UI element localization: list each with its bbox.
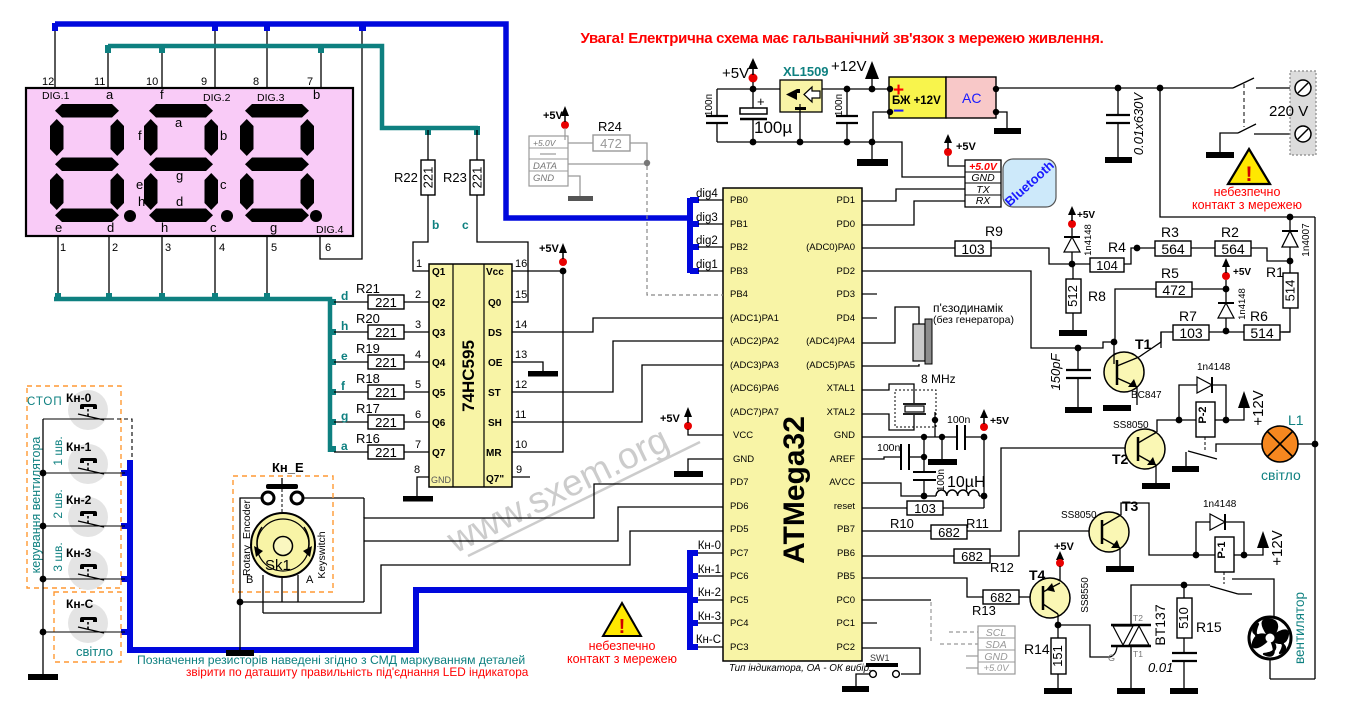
- svg-text:+5V: +5V: [990, 415, 1009, 427]
- svg-text:PB5: PB5: [837, 571, 855, 582]
- svg-text:R15: R15: [1196, 619, 1222, 635]
- svg-text:R22: R22: [394, 170, 418, 185]
- display pin 7 wire: [320, 49, 322, 88]
- svg-text:a: a: [175, 115, 183, 130]
- resistor R16: [334, 431, 429, 460]
- wire PA5 to piezo: [862, 364, 919, 366]
- svg-text:GND: GND: [733, 454, 754, 465]
- ground at U2 pin8: [403, 496, 433, 502]
- resistor R7: [1161, 308, 1226, 348]
- svg-text:100п: 100п: [834, 94, 845, 116]
- teal bus stubs bottom: [55, 293, 336, 452]
- node dig1: [698, 270, 723, 272]
- svg-text:контакт з мережею: контакт з мережею: [567, 652, 677, 666]
- resistor R10: [862, 501, 984, 531]
- svg-text:2: 2: [112, 242, 118, 254]
- svg-text:PB7: PB7: [837, 524, 855, 535]
- svg-text:R17: R17: [356, 401, 380, 416]
- piezo speaker: [913, 301, 1014, 364]
- resistor R9: [862, 223, 1064, 264]
- button Kn-0: [43, 390, 110, 430]
- +5V at Bluetooth: [944, 134, 977, 166]
- svg-text:dig1: dig1: [696, 259, 718, 271]
- svg-text:dig4: dig4: [696, 188, 718, 200]
- svg-text:f: f: [160, 87, 164, 102]
- resistor R12: [862, 531, 1090, 575]
- resistor R6: [1226, 308, 1290, 341]
- svg-text:8 MHz: 8 MHz: [921, 372, 956, 386]
- display pin 6 wire to DIG.4 select: [320, 27, 362, 259]
- warning triangle top: [1192, 149, 1302, 212]
- svg-text:AC: AC: [962, 90, 981, 106]
- svg-text:+12V: +12V: [1269, 530, 1286, 565]
- display bottom pin numbers: [60, 242, 331, 254]
- svg-text:221: 221: [375, 385, 397, 400]
- node R15 top: [1181, 582, 1188, 589]
- blue digit-select bus: [55, 24, 687, 218]
- svg-text:PC4: PC4: [730, 618, 748, 629]
- PSU +12V rail: [822, 88, 889, 90]
- svg-text:10µH: 10µH: [947, 474, 986, 491]
- wire segment b to Q1: [413, 195, 429, 271]
- svg-text:b: b: [313, 87, 320, 102]
- svg-text:514: 514: [1250, 325, 1274, 341]
- svg-text:(ADC3)PA3: (ADC3)PA3: [730, 360, 779, 371]
- encoder key button: [262, 478, 303, 524]
- digit DIG.2 segments: [144, 104, 233, 222]
- svg-text:11: 11: [515, 409, 526, 421]
- svg-text:Кн-3: Кн-3: [698, 611, 721, 623]
- svg-text:Sk1: Sk1: [265, 557, 291, 574]
- node encoder common: [237, 599, 244, 606]
- svg-text:100n: 100n: [947, 414, 971, 426]
- ground at buttons: [28, 674, 58, 680]
- Kn pin labels: [696, 540, 721, 646]
- wire DS14 to PA1: [512, 318, 723, 332]
- svg-text:103: 103: [914, 501, 936, 516]
- resistor R11: [862, 448, 1136, 540]
- svg-text:Кн-0: Кн-0: [698, 540, 721, 552]
- node R7 junction: [1223, 328, 1230, 335]
- svg-text:світло: світло: [76, 644, 113, 659]
- svg-text:БЖ +12V: БЖ +12V: [892, 95, 941, 107]
- diode D1 1n4148: [1064, 206, 1095, 264]
- +5V vertical to coil: [983, 437, 985, 508]
- +5V at MCU rail: [980, 409, 1009, 431]
- svg-text:P-1: P-1: [1216, 541, 1228, 558]
- svg-text:a: a: [106, 87, 114, 102]
- relay P-1: [1193, 537, 1248, 584]
- resistor R8: [1059, 264, 1106, 336]
- svg-text:ST: ST: [488, 388, 501, 399]
- svg-text:682: 682: [961, 549, 983, 564]
- svg-text:221: 221: [375, 325, 397, 340]
- svg-text:R16: R16: [356, 431, 380, 446]
- node R4 junction: [1069, 261, 1076, 268]
- diode D3 1n4148 flyback P-2: [1179, 362, 1231, 420]
- DC-DC converter XL1509: [780, 64, 829, 112]
- svg-text:GND: GND: [971, 172, 995, 184]
- wire ISP DATA row: [568, 163, 647, 165]
- transistor T1 BC847: [1103, 332, 1162, 411]
- svg-text:Q5: Q5: [432, 388, 446, 399]
- svg-text:(ADC0)PA0: (ADC0)PA0: [806, 242, 855, 253]
- svg-text:10: 10: [515, 439, 527, 451]
- svg-text:Кн-2: Кн-2: [698, 587, 721, 599]
- wire BT GND: [872, 142, 965, 177]
- Bluetooth header: [965, 160, 1001, 207]
- svg-text:e: e: [55, 220, 62, 235]
- svg-text:Keyswitch: Keyswitch: [316, 531, 328, 578]
- watermark www.sxem.org: [440, 419, 700, 562]
- capacitor 0.01x630V: [1105, 88, 1146, 163]
- resistor R17: [334, 401, 429, 430]
- svg-text:0.01x630V: 0.01x630V: [1131, 92, 1146, 155]
- svg-text:GND: GND: [431, 475, 452, 485]
- svg-text:7: 7: [307, 76, 313, 88]
- node dots PSU: [750, 86, 876, 146]
- svg-text:SW1: SW1: [870, 653, 890, 663]
- wire XTAL2 to crystal: [862, 414, 914, 430]
- button Kn-1: [43, 436, 125, 484]
- mains switch lower: [1206, 124, 1297, 158]
- capacitor 100n xtal: [947, 414, 984, 450]
- svg-text:небезпечно: небезпечно: [589, 639, 656, 653]
- svg-text:PD1: PD1: [837, 195, 855, 206]
- svg-text:100п: 100п: [704, 94, 715, 116]
- wire encoder left ring to common: [240, 498, 262, 602]
- svg-text:!: !: [619, 616, 626, 638]
- node dig3: [698, 223, 723, 225]
- svg-text:п'єзодинамік: п'єзодинамік: [933, 301, 1004, 315]
- capacitor 100n aref: [862, 437, 927, 472]
- svg-text:SDA: SDA: [985, 639, 1007, 651]
- svg-text:!: !: [1246, 163, 1253, 186]
- svg-text:Rotary_Encoder: Rotary_Encoder: [241, 500, 253, 576]
- wire PD5 staircase from encoder B: [263, 531, 723, 613]
- svg-text:100n: 100n: [936, 469, 947, 491]
- svg-text:Кн-1: Кн-1: [66, 440, 92, 454]
- svg-text:XTAL1: XTAL1: [827, 383, 855, 394]
- ground at AC: [994, 128, 1021, 134]
- svg-text:GND: GND: [984, 651, 1008, 663]
- node T4 collector: [1055, 622, 1062, 629]
- svg-text:7: 7: [415, 439, 421, 451]
- svg-text:(ADC2)PA2: (ADC2)PA2: [730, 336, 779, 347]
- LED display module body: [26, 88, 353, 236]
- svg-text:472: 472: [1162, 282, 1186, 298]
- svg-text:керування вентилятора: керування вентилятора: [29, 437, 43, 574]
- display pin 10 wire: [161, 49, 163, 88]
- power supply BZh +12V: [887, 77, 946, 122]
- svg-text:1n4148: 1n4148: [1237, 288, 1248, 320]
- IC U1 ATMega32: [723, 188, 862, 661]
- node R3 junction: [1134, 245, 1141, 252]
- svg-text:PB3: PB3: [730, 266, 748, 277]
- svg-text:L1: L1: [1288, 412, 1304, 428]
- wire BT TX to PD1: [862, 189, 965, 201]
- svg-text:16: 16: [515, 258, 527, 270]
- svg-text:DIG.3: DIG.3: [257, 92, 285, 104]
- connector 220V: [1269, 71, 1316, 155]
- svg-text:R24: R24: [598, 119, 622, 134]
- svg-text:d: d: [176, 194, 183, 209]
- display pin 1-5 wires: [58, 236, 267, 297]
- svg-text:OE: OE: [488, 358, 503, 369]
- node dig2: [698, 246, 723, 248]
- svg-text:R18: R18: [356, 371, 380, 386]
- svg-text:R11: R11: [966, 516, 989, 531]
- svg-text:(ADC6)PA6: (ADC6)PA6: [730, 383, 779, 394]
- svg-text:BT137: BT137: [1152, 604, 1168, 645]
- +5V at ISP: [543, 106, 569, 140]
- svg-text:+12V: +12V: [831, 58, 866, 75]
- svg-text:R23: R23: [443, 170, 467, 185]
- wire BT RX to PD0: [862, 201, 965, 225]
- wire segment c to Q0: [477, 195, 528, 302]
- svg-text:dig2: dig2: [696, 235, 718, 247]
- svg-text:звірити по даташиту правильніс: звірити по даташиту правильність під'єдн…: [186, 665, 529, 679]
- svg-text:103: 103: [961, 241, 985, 257]
- svg-text:СТОП: СТОП: [27, 396, 63, 408]
- svg-text:+5V: +5V: [543, 110, 564, 122]
- PSU +5V rail: [717, 88, 780, 90]
- capacitor 150pF: [1048, 345, 1092, 413]
- wire PD2 to T1 base net: [862, 271, 1114, 348]
- mains vertical right wire: [1314, 217, 1316, 679]
- svg-text:14: 14: [515, 319, 527, 331]
- svg-text:R10: R10: [890, 516, 914, 531]
- svg-text:Q7": Q7": [486, 474, 504, 485]
- wire MR10 to +5V: [512, 271, 563, 452]
- svg-text:PB1: PB1: [730, 219, 748, 230]
- svg-text:R12: R12: [990, 560, 1014, 575]
- button Kn-C: [43, 597, 125, 659]
- svg-text:+12V: +12V: [1250, 390, 1267, 425]
- svg-text:514: 514: [1283, 280, 1298, 302]
- display pin 8 wire: [266, 28, 268, 88]
- svg-text:5: 5: [271, 242, 277, 254]
- svg-text:Кн-1: Кн-1: [698, 564, 721, 576]
- node ISP data junction: [644, 160, 650, 166]
- teal segment bus bottom: [54, 299, 330, 452]
- dig labels: [696, 188, 718, 271]
- wire OE13 to ground: [512, 362, 543, 371]
- svg-text:PB0: PB0: [730, 195, 748, 206]
- resistor R22: [394, 130, 436, 195]
- svg-text:T1: T1: [1133, 649, 1143, 659]
- resistor R15: [1176, 585, 1222, 653]
- svg-text:PC3: PC3: [730, 642, 748, 653]
- svg-text:T4: T4: [1029, 567, 1046, 583]
- svg-text:g: g: [341, 409, 348, 423]
- svg-text:PD4: PD4: [837, 313, 855, 324]
- blue dig connector bus: [687, 198, 693, 273]
- svg-text:Q1: Q1: [432, 267, 446, 278]
- display pin 11 wire: [107, 49, 109, 88]
- svg-text:PC6: PC6: [730, 571, 748, 582]
- svg-text:PB4: PB4: [730, 289, 748, 300]
- svg-text:PC2: PC2: [837, 642, 855, 653]
- svg-text:SS8550: SS8550: [1080, 577, 1091, 613]
- node under 1n4007: [1287, 258, 1294, 265]
- svg-text:Q6: Q6: [432, 418, 446, 429]
- resistor R24: [568, 119, 647, 163]
- diode D4 1n4148 flyback P-1: [1196, 499, 1244, 555]
- capacitor 0.01 snubber: [1148, 653, 1198, 694]
- svg-text:1n4148: 1n4148: [1197, 362, 1231, 373]
- svg-text:472: 472: [600, 136, 622, 151]
- display pin 12 wire: [54, 28, 56, 88]
- transistor T4 SS8550: [1029, 541, 1091, 625]
- ground at U1 GND: [674, 459, 723, 477]
- svg-text:ATMega32: ATMega32: [778, 416, 811, 564]
- svg-text:Увага! Електрична схема має га: Увага! Електрична схема має гальванічний…: [581, 30, 1104, 47]
- svg-text:T3: T3: [1122, 498, 1139, 514]
- svg-text:f: f: [138, 128, 142, 143]
- svg-text:682: 682: [938, 525, 960, 540]
- svg-text:(ADC1)PA1: (ADC1)PA1: [730, 313, 779, 324]
- svg-text:100n: 100n: [877, 442, 901, 454]
- svg-text:3 шв.: 3 шв.: [51, 542, 65, 571]
- svg-text:a: a: [341, 439, 348, 453]
- pin stubs PD3 PD4 PC1 PC2: [862, 294, 877, 623]
- svg-text:MR: MR: [486, 448, 502, 459]
- svg-text:8: 8: [414, 464, 420, 476]
- svg-text:h: h: [161, 220, 168, 235]
- svg-text:R9: R9: [985, 223, 1003, 239]
- svg-text:+5V: +5V: [1233, 267, 1251, 278]
- svg-text:221: 221: [375, 355, 397, 370]
- svg-text:PD7: PD7: [730, 477, 748, 488]
- svg-text:g: g: [270, 220, 277, 235]
- svg-text:6: 6: [415, 409, 421, 421]
- svg-text:103: 103: [1179, 325, 1203, 341]
- svg-text:(ADC4)PA4: (ADC4)PA4: [806, 336, 855, 347]
- svg-text:220 V: 220 V: [1269, 103, 1308, 120]
- svg-text:2 шв.: 2 шв.: [51, 489, 65, 518]
- svg-text:R6: R6: [1250, 308, 1268, 324]
- svg-text:DATA: DATA: [533, 161, 557, 172]
- svg-text:+5V: +5V: [539, 243, 560, 255]
- svg-text:221: 221: [375, 295, 397, 310]
- svg-text:1 шв.: 1 шв.: [51, 436, 65, 465]
- resistor R2: [1191, 224, 1290, 261]
- svg-text:13: 13: [515, 349, 527, 361]
- warning triangle bottom: [567, 603, 677, 666]
- svg-text:0.01: 0.01: [1148, 660, 1173, 675]
- svg-text:2: 2: [415, 289, 421, 301]
- PSU bottom rail: [717, 141, 872, 143]
- svg-text:AVCC: AVCC: [829, 477, 855, 488]
- svg-text:reset: reset: [834, 501, 855, 512]
- relay P-2 contact: [1172, 444, 1262, 472]
- wire Vcc16 to +5V: [512, 270, 563, 272]
- svg-text:R8: R8: [1088, 288, 1106, 304]
- svg-text:1n4148: 1n4148: [1083, 224, 1094, 256]
- +12V at P-1: [1244, 530, 1286, 565]
- wire AC neutral to ground: [996, 112, 1007, 128]
- inductor 10uH: [862, 474, 987, 499]
- wire PA4 to piezo: [862, 307, 919, 343]
- svg-text:G: G: [1108, 653, 1115, 663]
- relay P-1 contact: [1210, 579, 1274, 617]
- svg-text:(без генератора): (без генератора): [933, 314, 1014, 326]
- wire ST12 to PA2: [512, 341, 723, 392]
- digit DIG.1 segments: [50, 104, 136, 222]
- MCU ground rail: [862, 436, 957, 438]
- svg-text:+5V: +5V: [956, 141, 977, 153]
- resistor R5: [1115, 265, 1226, 342]
- svg-text:Кн-3: Кн-3: [66, 546, 92, 560]
- svg-text:564: 564: [1161, 241, 1185, 257]
- node junctions on button rail: [40, 470, 47, 636]
- button Kn-2: [43, 489, 125, 537]
- dashed link Kn-0 to bus: [110, 419, 132, 458]
- rotary encoder Sk1: [241, 500, 328, 586]
- svg-text:R5: R5: [1161, 265, 1179, 281]
- wire PD7 staircase from encoder: [364, 484, 723, 602]
- blue bus ticks at buttons: [121, 470, 131, 635]
- buttons common wire: [42, 419, 44, 674]
- node above 1n4007: [1287, 214, 1294, 221]
- AC input block: [946, 77, 999, 118]
- svg-text:1n4148: 1n4148: [1203, 499, 1237, 510]
- svg-text:15: 15: [515, 289, 527, 301]
- wire BZh minus: [873, 112, 889, 142]
- capacitor 100n input: [704, 89, 728, 142]
- svg-text:T2: T2: [1112, 451, 1129, 467]
- fan motor: [1249, 592, 1315, 679]
- ground at encoder: [239, 602, 241, 650]
- svg-text:PC7: PC7: [730, 548, 748, 559]
- svg-text:h: h: [341, 319, 348, 333]
- wire PD6 staircase: [364, 507, 723, 541]
- svg-text:PD0: PD0: [837, 219, 855, 230]
- svg-text:R14: R14: [1024, 641, 1050, 657]
- svg-text:SH: SH: [488, 418, 502, 429]
- wire GND8 to ground: [417, 477, 429, 496]
- svg-text:GND: GND: [834, 430, 855, 441]
- teal segment bus top: [108, 46, 478, 128]
- svg-text:DIG.2: DIG.2: [203, 92, 231, 104]
- ground at ISP: [568, 196, 593, 201]
- IC U2 74HC595: [414, 258, 527, 487]
- svg-text:+5V: +5V: [1077, 210, 1095, 221]
- wire crystal case: [934, 412, 936, 437]
- svg-text:74HC595: 74HC595: [459, 340, 478, 412]
- svg-text:вентилятор: вентилятор: [1292, 592, 1307, 664]
- svg-text:h: h: [138, 194, 145, 209]
- transistor T3 SS8050: [1061, 498, 1196, 572]
- svg-text:g: g: [176, 168, 183, 183]
- svg-text:PD3: PD3: [837, 289, 855, 300]
- svg-text:+5V: +5V: [722, 65, 749, 82]
- +5V at U1 VCC: [660, 407, 723, 435]
- capacitor 100n avcc: [913, 469, 947, 496]
- button Kn-C group box: [54, 592, 121, 662]
- svg-text:9: 9: [516, 464, 522, 476]
- teal bus stubs top: [105, 45, 480, 135]
- relay P-2: [1176, 402, 1230, 452]
- ground at PSU: [857, 142, 888, 166]
- svg-text:150pF: 150pF: [1048, 353, 1063, 391]
- svg-text:SCL: SCL: [986, 627, 1007, 639]
- svg-text:564: 564: [1221, 241, 1245, 257]
- svg-text:104: 104: [1096, 258, 1118, 273]
- blue bus buttons to U1: [130, 460, 688, 650]
- wire ISP GND row: [568, 176, 580, 196]
